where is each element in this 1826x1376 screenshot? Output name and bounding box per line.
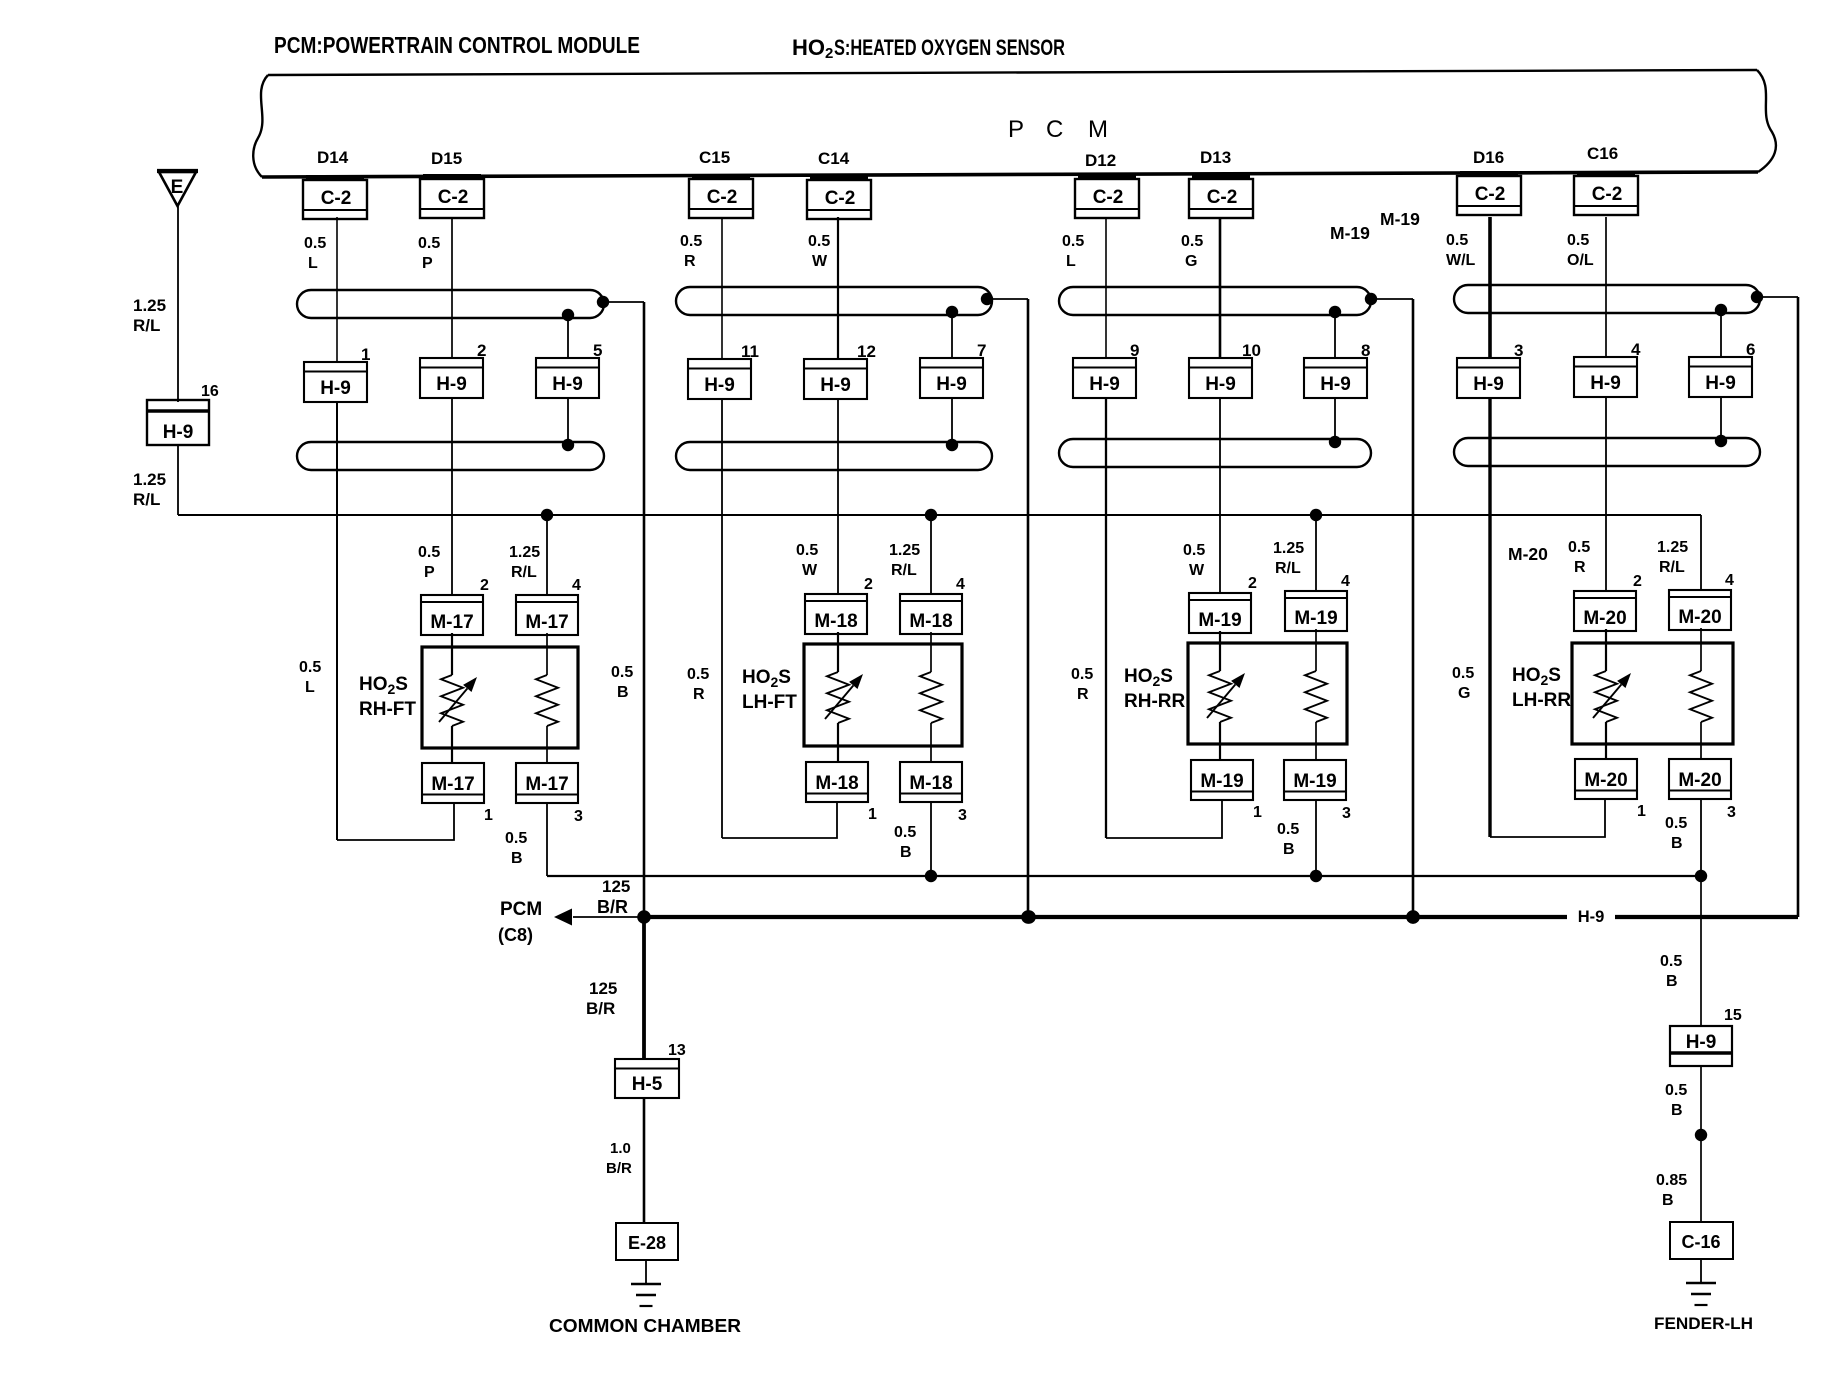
svg-text:M-20: M-20 <box>1583 608 1626 629</box>
svg-text:4: 4 <box>956 576 965 593</box>
svg-text:D15: D15 <box>431 149 462 168</box>
svg-text:M: M <box>1088 116 1108 143</box>
svg-text:M-20: M-20 <box>1584 770 1627 791</box>
svg-text:0.5: 0.5 <box>611 664 633 681</box>
svg-text:H-9: H-9 <box>704 375 735 396</box>
svg-text:C-2: C-2 <box>1475 184 1506 205</box>
svg-text:2: 2 <box>1633 573 1642 590</box>
svg-text:C-2: C-2 <box>1093 187 1124 208</box>
svg-text:R/L: R/L <box>133 490 160 509</box>
svg-text:R/L: R/L <box>133 316 160 335</box>
svg-text:HO2S: HO2S <box>1512 665 1561 688</box>
svg-text:D13: D13 <box>1200 148 1231 167</box>
svg-text:B: B <box>511 850 523 867</box>
svg-text:C16: C16 <box>1587 144 1618 163</box>
svg-text:H-9: H-9 <box>1590 373 1621 394</box>
svg-text:M-20: M-20 <box>1508 544 1548 564</box>
svg-text:3: 3 <box>1727 804 1736 821</box>
svg-text:B/R: B/R <box>606 1160 632 1177</box>
svg-text:M-17: M-17 <box>430 612 473 633</box>
svg-text:0.5: 0.5 <box>1062 233 1084 250</box>
svg-text:M-17: M-17 <box>525 774 568 795</box>
svg-text:4: 4 <box>1341 573 1350 590</box>
svg-text:HO2S: HO2S <box>1124 666 1173 689</box>
svg-text:L: L <box>1066 253 1076 270</box>
svg-text:RH-FT: RH-FT <box>359 699 416 720</box>
svg-text:B/R: B/R <box>586 999 615 1018</box>
svg-text:C-2: C-2 <box>1592 184 1623 205</box>
svg-text:H-9: H-9 <box>1320 374 1351 395</box>
svg-text:1: 1 <box>1253 804 1262 821</box>
svg-text:R: R <box>1574 559 1586 576</box>
svg-text:P: P <box>1008 116 1024 143</box>
svg-text:G: G <box>1185 253 1197 270</box>
svg-text:HO2S: HO2S <box>742 667 791 690</box>
svg-text:1.25: 1.25 <box>133 470 166 489</box>
svg-text:B/R: B/R <box>597 897 628 917</box>
svg-text:M-19: M-19 <box>1380 209 1420 229</box>
svg-text:B: B <box>617 684 629 701</box>
svg-text:R/L: R/L <box>511 564 537 581</box>
svg-text:13: 13 <box>668 1042 686 1059</box>
svg-text:0.85: 0.85 <box>1656 1172 1687 1189</box>
svg-text:M-19: M-19 <box>1330 223 1370 243</box>
svg-text:1.25: 1.25 <box>1657 539 1688 556</box>
svg-text:B: B <box>1662 1192 1674 1209</box>
svg-text:M-19: M-19 <box>1294 608 1337 629</box>
svg-text:H-5: H-5 <box>632 1074 663 1095</box>
svg-text:2: 2 <box>477 341 486 360</box>
svg-text:2: 2 <box>825 45 833 62</box>
svg-text:15: 15 <box>1724 1007 1742 1024</box>
svg-text:B: B <box>1671 1102 1683 1119</box>
svg-text:0.5: 0.5 <box>1446 232 1468 249</box>
svg-text:L: L <box>305 679 315 696</box>
svg-text:R/L: R/L <box>1659 559 1685 576</box>
svg-text:C-2: C-2 <box>1207 187 1238 208</box>
svg-text:11: 11 <box>741 342 759 361</box>
svg-text:2: 2 <box>864 576 873 593</box>
svg-text:0.5: 0.5 <box>1567 232 1589 249</box>
svg-text:0.5: 0.5 <box>1660 953 1682 970</box>
svg-text:9: 9 <box>1130 341 1139 360</box>
svg-text:B: B <box>1671 835 1683 852</box>
svg-text:C-2: C-2 <box>321 188 352 209</box>
svg-text:HO2S: HO2S <box>359 674 408 697</box>
svg-text:M-18: M-18 <box>815 773 858 794</box>
svg-text:D16: D16 <box>1473 148 1504 167</box>
svg-text:HO: HO <box>792 35 825 60</box>
svg-text:H-9: H-9 <box>1686 1032 1717 1053</box>
svg-text:M-19: M-19 <box>1200 771 1243 792</box>
svg-text:0.5: 0.5 <box>796 542 818 559</box>
svg-text:R: R <box>693 686 705 703</box>
svg-text:H-9: H-9 <box>1705 373 1736 394</box>
svg-text:LH-FT: LH-FT <box>742 692 797 713</box>
svg-text:H-9: H-9 <box>436 374 467 395</box>
svg-text:R/L: R/L <box>1275 560 1301 577</box>
svg-text:2: 2 <box>480 577 489 594</box>
svg-text:M-17: M-17 <box>431 774 474 795</box>
svg-text:D14: D14 <box>317 148 349 167</box>
svg-text:H-9: H-9 <box>320 378 351 399</box>
svg-text:1: 1 <box>361 345 370 364</box>
svg-text:0.5: 0.5 <box>1665 1082 1687 1099</box>
svg-text:M-18: M-18 <box>909 611 952 632</box>
svg-text:0.5: 0.5 <box>1071 666 1093 683</box>
svg-text:M-20: M-20 <box>1678 770 1721 791</box>
svg-text:PCM: PCM <box>500 899 542 920</box>
svg-text:0.5: 0.5 <box>1568 539 1590 556</box>
svg-text:2: 2 <box>1248 575 1257 592</box>
svg-text:0.5: 0.5 <box>1665 815 1687 832</box>
svg-text:125: 125 <box>602 877 630 896</box>
svg-text:W: W <box>812 253 828 270</box>
svg-text:W: W <box>802 562 818 579</box>
svg-text:0.5: 0.5 <box>304 235 326 252</box>
svg-text:M-19: M-19 <box>1198 610 1241 631</box>
svg-text:PCM:POWERTRAIN CONTROL MODULE: PCM:POWERTRAIN CONTROL MODULE <box>274 32 640 58</box>
svg-text:C-16: C-16 <box>1681 1232 1720 1252</box>
svg-text:FENDER-LH: FENDER-LH <box>1654 1314 1753 1333</box>
svg-text:H-9: H-9 <box>1205 374 1236 395</box>
svg-text:0.5: 0.5 <box>680 233 702 250</box>
svg-text:P: P <box>424 564 435 581</box>
svg-text:S:HEATED OXYGEN SENSOR: S:HEATED OXYGEN SENSOR <box>834 35 1065 60</box>
svg-text:B: B <box>1283 841 1295 858</box>
svg-text:0.5: 0.5 <box>299 659 321 676</box>
svg-text:1: 1 <box>484 807 493 824</box>
svg-text:1.0: 1.0 <box>610 1140 631 1157</box>
svg-text:1.25: 1.25 <box>889 542 920 559</box>
svg-text:1: 1 <box>1637 803 1646 820</box>
svg-text:E: E <box>171 177 184 198</box>
svg-text:16: 16 <box>201 383 219 400</box>
svg-text:0.5: 0.5 <box>418 544 440 561</box>
svg-text:W/L: W/L <box>1446 252 1476 269</box>
svg-text:0.5: 0.5 <box>894 824 916 841</box>
svg-text:0.5: 0.5 <box>1181 233 1203 250</box>
svg-text:L: L <box>308 255 318 272</box>
svg-text:3: 3 <box>1342 805 1351 822</box>
svg-text:D12: D12 <box>1085 151 1116 170</box>
svg-text:5: 5 <box>593 341 602 360</box>
svg-text:C: C <box>1046 116 1063 143</box>
svg-text:C15: C15 <box>699 148 730 167</box>
svg-text:LH-RR: LH-RR <box>1512 690 1571 711</box>
svg-text:0.5: 0.5 <box>808 233 830 250</box>
svg-text:E-28: E-28 <box>628 1233 666 1253</box>
svg-text:6: 6 <box>1746 340 1755 359</box>
svg-text:0.5: 0.5 <box>1183 542 1205 559</box>
svg-text:H-9: H-9 <box>1578 908 1605 926</box>
svg-text:M-20: M-20 <box>1678 607 1721 628</box>
svg-text:3: 3 <box>958 807 967 824</box>
svg-text:(C8): (C8) <box>498 925 533 945</box>
svg-text:R/L: R/L <box>891 562 917 579</box>
svg-text:C14: C14 <box>818 149 850 168</box>
svg-text:B: B <box>1666 973 1678 990</box>
svg-text:0.5: 0.5 <box>687 666 709 683</box>
svg-text:H-9: H-9 <box>163 422 194 443</box>
svg-text:3: 3 <box>1514 341 1523 360</box>
svg-text:1.25: 1.25 <box>509 544 540 561</box>
svg-text:0.5: 0.5 <box>1452 665 1474 682</box>
svg-text:4: 4 <box>1725 572 1734 589</box>
svg-text:H-9: H-9 <box>936 374 967 395</box>
svg-text:C-2: C-2 <box>438 187 469 208</box>
svg-text:M-17: M-17 <box>525 612 568 633</box>
svg-text:125: 125 <box>589 979 617 998</box>
svg-text:H-9: H-9 <box>1473 374 1504 395</box>
svg-text:4: 4 <box>572 577 581 594</box>
svg-text:1.25: 1.25 <box>133 296 166 315</box>
svg-text:W: W <box>1189 562 1205 579</box>
svg-text:12: 12 <box>857 342 876 361</box>
svg-text:R: R <box>1077 686 1089 703</box>
svg-text:O/L: O/L <box>1567 252 1594 269</box>
svg-text:H-9: H-9 <box>552 374 583 395</box>
svg-text:M-19: M-19 <box>1293 771 1336 792</box>
svg-text:G: G <box>1458 685 1470 702</box>
svg-text:1.25: 1.25 <box>1273 540 1304 557</box>
svg-text:M-18: M-18 <box>814 611 857 632</box>
svg-text:7: 7 <box>977 341 986 360</box>
svg-text:RH-RR: RH-RR <box>1124 691 1185 712</box>
svg-text:10: 10 <box>1242 341 1261 360</box>
svg-text:P: P <box>422 255 433 272</box>
svg-text:C-2: C-2 <box>707 187 738 208</box>
svg-text:0.5: 0.5 <box>1277 821 1299 838</box>
svg-text:0.5: 0.5 <box>505 830 527 847</box>
svg-text:0.5: 0.5 <box>418 235 440 252</box>
svg-text:3: 3 <box>574 808 583 825</box>
svg-text:R: R <box>684 253 696 270</box>
svg-text:B: B <box>900 844 912 861</box>
svg-text:C-2: C-2 <box>825 188 856 209</box>
svg-text:M-18: M-18 <box>909 773 952 794</box>
svg-text:H-9: H-9 <box>1089 374 1120 395</box>
svg-text:H-9: H-9 <box>820 375 851 396</box>
svg-text:8: 8 <box>1361 341 1370 360</box>
svg-text:4: 4 <box>1631 340 1641 359</box>
svg-text:COMMON CHAMBER: COMMON CHAMBER <box>549 1316 741 1336</box>
svg-text:1: 1 <box>868 806 877 823</box>
